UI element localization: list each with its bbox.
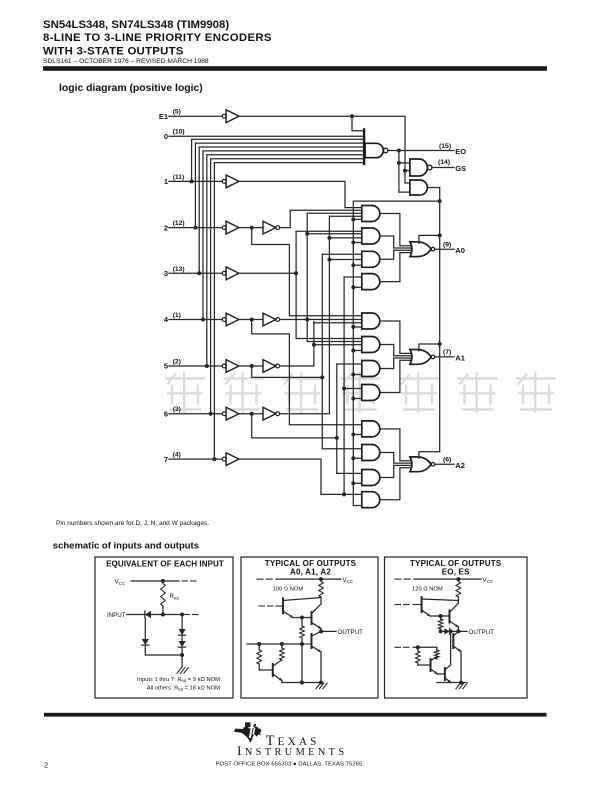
- nand gate EO (9-input): [363, 128, 365, 165]
- ground panel2: [316, 683, 320, 689]
- inverter U2B: [263, 221, 276, 234]
- resistor mid panel3: [440, 616, 442, 619]
- wire bottom link: [145, 654, 182, 656]
- wire EN into A1-4: [353, 398, 362, 400]
- wire E1 buffered: [239, 115, 405, 117]
- junction input 6 bus tap: [209, 412, 213, 416]
- transistor Q4 panel3: [430, 659, 432, 671]
- ground panel3: [456, 683, 460, 689]
- inverter U6B: [263, 407, 276, 420]
- svg-text:Pin numbers shown are for D, J: Pin numbers shown are for D, J, N, and W…: [56, 520, 209, 527]
- wire T4 (input 4 true): [252, 320, 362, 425]
- wire A0-3 output to NOR: [380, 250, 412, 259]
- svg-text:SDLS161 – OCTOBER 1976 – REVIS: SDLS161 – OCTOBER 1976 – REVISED MARCH 1…: [43, 58, 209, 65]
- svg-text:Req: Req: [170, 594, 180, 600]
- wire EO output: [388, 150, 454, 152]
- svg-text:A0, A1, A2: A0, A1, A2: [290, 568, 331, 577]
- svg-text:EQUIVALENT OF EACH INPUT: EQUIVALENT OF EACH INPUT: [106, 560, 224, 569]
- inverter U7A: [222, 457, 226, 461]
- svg-text:(9): (9): [443, 242, 451, 249]
- svg-text:(14): (14): [438, 159, 450, 166]
- wire A2-2 output to NOR: [380, 453, 412, 464]
- transistor Q3 panel3: [452, 634, 454, 648]
- svg-text:E1: E1: [159, 112, 168, 121]
- wire row 2 between inverters: [239, 227, 263, 229]
- svg-text:2: 2: [44, 760, 48, 769]
- svg-text:A2: A2: [455, 461, 465, 470]
- wire A1-2 output to NOR: [380, 345, 412, 356]
- resistor left panel2: [258, 644, 260, 650]
- resistor Req: [161, 584, 166, 607]
- junction input 5 bus tap: [205, 364, 209, 368]
- wire A1 output: [435, 356, 454, 358]
- diode input clamp (emitter): [145, 611, 151, 618]
- svg-text:INPUT: INPUT: [107, 612, 126, 619]
- wire C6 (input 6 complement): [280, 216, 330, 413]
- junction input 2 bus tap: [193, 226, 197, 230]
- nor gate A0: [410, 242, 431, 257]
- wire A2-3 output to NOR: [380, 465, 412, 477]
- svg-text:GS: GS: [455, 164, 466, 173]
- wire 3-state enable into A0 NOR: [419, 235, 440, 243]
- wire bus line 1: [192, 139, 364, 181]
- wire EN into A0-4: [353, 286, 362, 288]
- and gate A1-2: [362, 337, 380, 353]
- wire A2-1 output to NOR: [380, 429, 412, 461]
- wire C2 (input 2 complement): [280, 210, 362, 227]
- transistor Q2 panel3: [430, 615, 450, 617]
- wire EN into A2-2: [353, 457, 362, 459]
- wire A2-4 output to NOR: [380, 468, 412, 500]
- diode right branch 2: [179, 641, 186, 647]
- svg-text:OUTPUT: OUTPUT: [338, 629, 364, 636]
- wire input 7: [169, 458, 222, 460]
- inverter U5A: [222, 364, 226, 368]
- wire GS output: [432, 167, 454, 169]
- wire vcc rail panel2: [257, 578, 263, 580]
- junction input 7 bus tap: [212, 457, 216, 461]
- svg-text:WITH 3-STATE OUTPUTS: WITH 3-STATE OUTPUTS: [43, 46, 184, 58]
- wire bus line 7: [214, 163, 364, 460]
- wire bus line 2: [195, 143, 364, 228]
- wire A1-1 output to NOR: [380, 321, 412, 353]
- transistor Q2 panel2: [293, 617, 312, 619]
- diode right branch 1: [179, 629, 186, 635]
- inverter U5B: [263, 360, 276, 373]
- wire T6 (input 6 true): [252, 414, 337, 438]
- transistor Q3 panel2: [311, 634, 313, 648]
- svg-text:EO, ES: EO, ES: [442, 568, 470, 577]
- wire input 5: [169, 365, 222, 367]
- wire bottom rail panel2: [282, 682, 321, 684]
- svg-text:A0: A0: [455, 246, 465, 255]
- TI logo texas map: [234, 722, 261, 742]
- svg-text:6: 6: [164, 409, 168, 418]
- wire enable AND output: [427, 188, 439, 452]
- wire E1 down to GS and enable gates: [405, 116, 410, 183]
- wire 3-state enable into A1 NOR: [419, 344, 440, 351]
- wire A0 output: [435, 248, 454, 250]
- and gate output-enable: [410, 180, 428, 195]
- panel: equivalent of each input: [95, 557, 233, 698]
- wire row 4 between inverters: [239, 319, 263, 321]
- wire EN into A2-4: [353, 505, 362, 507]
- nor gate A1: [410, 350, 431, 365]
- transistor Q4 panel2: [272, 664, 274, 676]
- transistor Q1 panel3: [421, 597, 423, 612]
- transistor Q5 panel3: [438, 673, 445, 675]
- wire input 4: [169, 319, 222, 321]
- wire EN into A2-3: [353, 482, 362, 484]
- inverter U1A: [222, 180, 226, 184]
- wire input line: [127, 614, 181, 616]
- wire base drive panel2: [247, 643, 302, 645]
- svg-text:schematic of inputs and output: schematic of inputs and outputs: [53, 541, 199, 552]
- wire A1-3 output to NOR: [380, 358, 412, 369]
- svg-text:(6): (6): [443, 457, 451, 464]
- svg-text:(3): (3): [173, 406, 181, 413]
- and gate A1-3: [362, 361, 380, 377]
- svg-text:8-LINE TO 3-LINE PRIORITY ENCO: 8-LINE TO 3-LINE PRIORITY ENCODERS: [43, 32, 272, 44]
- svg-text:100 Ω NOM: 100 Ω NOM: [273, 587, 304, 593]
- wire vcc rail panel3: [395, 578, 401, 580]
- wire EN into A0-1: [353, 218, 362, 220]
- watermark: [165, 373, 556, 413]
- svg-text:0: 0: [164, 132, 168, 141]
- inverter U4A: [222, 318, 226, 322]
- svg-text:(1): (1): [173, 312, 181, 319]
- and gate A0-4: [362, 274, 380, 290]
- wire base drive panel3: [395, 646, 401, 648]
- svg-text:POST OFFICE BOX 655303 ● DALLA: POST OFFICE BOX 655303 ● DALLAS, TEXAS 7…: [216, 761, 363, 767]
- svg-text:2: 2: [164, 223, 168, 232]
- inverter U-E1: [222, 114, 226, 118]
- svg-text:5: 5: [164, 362, 168, 371]
- wire EN into A0-2: [353, 242, 362, 244]
- junction input 4 bus tap: [201, 318, 205, 322]
- wire input 6: [169, 413, 222, 415]
- wire to GS input: [399, 162, 410, 164]
- wire input 3: [169, 272, 222, 274]
- wire bus line 3: [199, 147, 364, 273]
- wire input 0 to EO-NAND: [169, 135, 364, 137]
- wire row 5 between inverters: [239, 365, 263, 367]
- and gate A0-3: [362, 251, 380, 267]
- wire C4 (input 4 complement): [280, 319, 362, 321]
- node OUTPUT panel3: [456, 629, 460, 633]
- wire EN trunk: [353, 201, 439, 505]
- svg-text:7: 7: [164, 455, 168, 464]
- wire input 2: [169, 227, 222, 229]
- wire bottom rail panel3: [437, 682, 466, 684]
- svg-text:A1: A1: [455, 354, 465, 363]
- wire T1 (input 1 true): [239, 181, 362, 207]
- svg-text:(13): (13): [173, 266, 185, 273]
- svg-text:(5): (5): [173, 109, 181, 116]
- svg-text:(10): (10): [173, 129, 185, 136]
- diode left branch: [142, 639, 149, 645]
- wire E1 to GS gate input: [405, 170, 410, 172]
- and gate A2-4: [362, 492, 380, 508]
- wire T7 (input 7 true): [239, 459, 362, 494]
- wire EN into A1-3: [353, 374, 362, 376]
- and gate A0-1: [362, 206, 380, 222]
- wire EN into A0-3: [353, 264, 362, 266]
- inverter U3A: [222, 271, 226, 275]
- svg-text:EO: EO: [455, 147, 466, 156]
- wire A0-2 output to NOR: [380, 236, 412, 248]
- wire E1 input: [169, 115, 222, 117]
- wire A0-4 output to NOR: [380, 253, 412, 282]
- wire A0-1 output to NOR: [380, 214, 412, 246]
- resistor mid-left panel3: [436, 647, 438, 650]
- wire 3-state enable into A2 NOR: [419, 452, 440, 459]
- and gate A1-1: [362, 313, 380, 329]
- wire bus line 5: [207, 155, 364, 366]
- wire EN into A1-1: [353, 326, 362, 328]
- footer rule: [44, 713, 547, 717]
- resistor mid panel2: [301, 618, 303, 627]
- wire T2 (input 2 true): [252, 228, 362, 316]
- junction input 1 bus tap: [190, 179, 194, 183]
- and gate A2-2: [362, 445, 380, 461]
- diode panel3: [441, 630, 445, 632]
- nor gate A2: [410, 457, 431, 472]
- wire EN into A2-1: [353, 434, 362, 436]
- inverter U6A: [222, 412, 226, 416]
- wire A1-4 output to NOR: [380, 360, 412, 392]
- svg-text:3: 3: [164, 269, 168, 278]
- wire C5 (input 5 complement): [280, 322, 314, 367]
- panel: typical of outputs EO ES: [385, 557, 528, 698]
- svg-text:Inputs 1 thru 7: Req = 9 kΩ: Inputs 1 thru 7: Req = 9 kΩ NOM: [137, 677, 220, 683]
- wire EN into A1-2: [353, 350, 362, 352]
- and gate A0-2: [362, 228, 380, 244]
- wire input 1: [169, 180, 222, 182]
- and gate A1-4: [362, 385, 380, 401]
- svg-text:(11): (11): [173, 174, 185, 181]
- svg-text:OUTPUT: OUTPUT: [469, 629, 495, 636]
- junction input 3 bus tap: [197, 271, 201, 275]
- wire A2 output: [435, 463, 454, 465]
- svg-text:All others: Req = 18 kΩ NOM: All others: Req = 18 kΩ NOM: [147, 686, 220, 692]
- inverter U2A: [222, 226, 226, 230]
- wire left branch: [144, 618, 146, 639]
- wire T5 (input 5 true): [252, 366, 323, 377]
- panel: typical of outputs A0 A1 A2: [241, 557, 378, 698]
- wire vcc rail panel1: [131, 580, 179, 582]
- wire right branch: [181, 617, 183, 629]
- wire row 6 between inverters: [239, 413, 263, 415]
- svg-text:1: 1: [164, 177, 168, 186]
- resistor left panel3: [417, 647, 419, 651]
- wire bus line 4: [203, 151, 364, 320]
- wire E1 to EO-NAND: [352, 116, 364, 131]
- svg-text:(2): (2): [173, 359, 181, 366]
- and gate A2-3: [362, 470, 380, 486]
- transistor Q1 panel2: [282, 598, 284, 613]
- svg-text:logic diagram (positive logic): logic diagram (positive logic): [59, 83, 203, 94]
- wire bus line 6: [211, 159, 364, 414]
- svg-text:(4): (4): [173, 452, 181, 459]
- nand gate GS: [410, 159, 428, 176]
- svg-text:(15): (15): [439, 143, 451, 150]
- svg-text:120 Ω NOM: 120 Ω NOM: [412, 587, 443, 593]
- svg-text:(7): (7): [443, 349, 451, 356]
- resistor mid-left panel2: [281, 644, 283, 648]
- ground panel1: [177, 668, 181, 674]
- header rule: [43, 66, 547, 71]
- and gate A2-1: [362, 421, 380, 437]
- node OUTPUT panel2: [319, 629, 323, 633]
- wire EO to GS gate: [399, 151, 410, 193]
- svg-text:(12): (12): [173, 220, 185, 227]
- inverter U4B: [263, 313, 276, 326]
- wire T3 (input 3 true): [239, 272, 296, 274]
- svg-text:SN54LS348, SN74LS348 (TIM9908): SN54LS348, SN74LS348 (TIM9908): [43, 19, 229, 31]
